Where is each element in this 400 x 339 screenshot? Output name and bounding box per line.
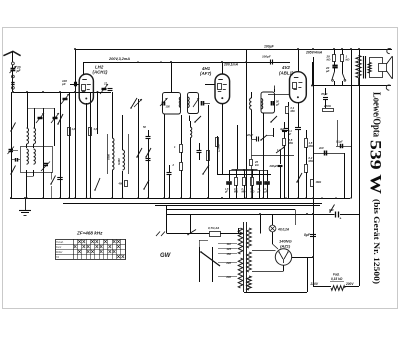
- capacitor C27 8uF plus: [335, 212, 337, 218]
- wire vertical x217 tall: [217, 136, 219, 174]
- resistor R7: [244, 170, 246, 177]
- capacitor C9: [146, 158, 151, 160]
- switch S1 antenna: [11, 123, 16, 132]
- resistor R14 1k: [342, 49, 344, 55]
- trimmer arrow osc a: [134, 99, 142, 107]
- IF2 primary coil: [250, 98, 252, 109]
- svg-text:2nF: 2nF: [318, 146, 324, 150]
- wire heater bus y203: [63, 203, 322, 205]
- wire bus to switch: [166, 206, 168, 234]
- IF transformer 2 can: [261, 92, 275, 113]
- svg-text:µF: µF: [264, 191, 268, 194]
- wire x337 feedback: [337, 120, 339, 146]
- table cross marks: [78, 240, 81, 243]
- wire vertical x112: [112, 92, 114, 138]
- tap 150: [218, 253, 237, 255]
- wire rectifier filament: [283, 265, 285, 271]
- cathode resistor R11 wire: [288, 102, 290, 106]
- wire vertical x313: [313, 57, 315, 286]
- wire vertical x246: [246, 49, 248, 198]
- capacitor C26 200uF: [280, 150, 282, 164]
- capacitor C12 grid coupling: [270, 60, 272, 65]
- wire 4H1 grid: [205, 84, 215, 86]
- transformer core lines: [243, 222, 245, 292]
- svg-text:TA: TA: [56, 255, 59, 259]
- capacitor C24 20uF: [251, 115, 253, 139]
- wire bus y214: [166, 214, 335, 216]
- wire 4V2 anode: [298, 49, 300, 72]
- svg-text:(ABL1): (ABL1): [279, 71, 294, 76]
- wire mains switch line: [167, 233, 209, 235]
- ground symbol: [25, 198, 27, 210]
- transformer core: [363, 56, 365, 79]
- svg-text:200µF: 200µF: [269, 164, 278, 168]
- svg-text:27: 27: [103, 82, 107, 86]
- band switch blade a: [11, 166, 16, 175]
- dial lamp: [269, 225, 276, 232]
- wire 4H1 anode: [222, 62, 224, 74]
- switch blade d: [131, 98, 137, 108]
- terminal hook speaker return: [386, 85, 390, 90]
- coil shield lines: [107, 134, 109, 174]
- wire antenna junction: [13, 92, 111, 94]
- switch blade k: [297, 173, 302, 182]
- wire vertical x60: [60, 92, 62, 198]
- svg-text:150: 150: [166, 105, 171, 109]
- small cap on lead: [11, 82, 14, 84]
- svg-text:1MΩ: 1MΩ: [316, 180, 322, 184]
- potentiometer arrow: [276, 147, 285, 154]
- IF1 secondary coil: [188, 97, 190, 108]
- wire x171 top: [171, 62, 173, 92]
- wire vertical x27: [27, 92, 29, 128]
- capacitor C14 1uF: [259, 170, 261, 181]
- svg-text:4V2: 4V2: [281, 65, 290, 70]
- wire vertical x97: [97, 92, 99, 134]
- resistor R5: [207, 151, 210, 161]
- capacitor C22 8uF: [310, 234, 316, 236]
- wire top HT bus: [75, 49, 392, 51]
- svg-text:480: 480: [118, 182, 124, 186]
- capacitor C7: [108, 88, 113, 90]
- resistor R15b: [305, 165, 308, 173]
- svg-text:100pF: 100pF: [262, 55, 271, 59]
- IF2 series cap: [271, 101, 273, 106]
- svg-text:1,0: 1,0: [72, 127, 76, 131]
- wire speaker return drop: [358, 78, 360, 86]
- resistor R6: [236, 170, 238, 177]
- svg-text:20µF: 20µF: [246, 133, 254, 137]
- antenna coil L1: [27, 128, 29, 144]
- transformer primary winding: [238, 228, 243, 254]
- svg-text:MΩ: MΩ: [234, 191, 238, 194]
- switch blade m: [144, 180, 149, 189]
- svg-text:240: 240: [225, 275, 231, 279]
- wire transformer bottom: [244, 292, 307, 294]
- selector arm: [201, 252, 220, 266]
- svg-text:Tonab.: Tonab.: [56, 240, 64, 244]
- wire lamp to rectifier: [272, 238, 274, 244]
- svg-text:200V,3,2mA: 200V,3,2mA: [108, 57, 130, 61]
- shield box oscillator coils: [21, 147, 53, 173]
- wire vertical x359 right border: [359, 49, 361, 286]
- resistor R16 1M: [311, 180, 314, 187]
- speaker frame box: [370, 58, 383, 78]
- svg-text:0,7/1,2A: 0,7/1,2A: [208, 226, 219, 230]
- tap 110: [218, 243, 237, 245]
- wire x83 drop: [83, 62, 85, 75]
- wire rectifier output y286: [313, 286, 331, 288]
- IF1 right cap: [201, 101, 203, 106]
- svg-text:200Ω: 200Ω: [323, 104, 332, 108]
- tube LH2: [79, 74, 93, 104]
- title Loewe/Opta 539 W (bis Geraet Nr. 12500): [367, 92, 384, 284]
- speaker cone: [387, 56, 393, 64]
- wire rectifier output: [292, 257, 313, 259]
- wire IF1 down: [189, 116, 191, 122]
- transformer secondary winding: [247, 228, 252, 248]
- speaker magnet: [379, 64, 387, 72]
- wire primary top: [220, 233, 238, 235]
- rectifier tube AZ1: [275, 249, 291, 265]
- wire vertical x312: [312, 62, 314, 86]
- svg-text:(bis Gerät Nr. 12500): (bis Gerät Nr. 12500): [372, 199, 382, 284]
- switch blade h: [203, 165, 209, 174]
- svg-text:Fad.: Fad.: [333, 273, 340, 277]
- trimmer C6: [102, 88, 107, 90]
- svg-text:µF: µF: [287, 132, 292, 136]
- antenna coil L2: [34, 128, 36, 144]
- bus junction dots: [10, 197, 12, 199]
- svg-text:0,15 kΩ: 0,15 kΩ: [331, 277, 343, 281]
- wire vertical x208: [208, 105, 210, 198]
- svg-text:0,1µF: 0,1µF: [336, 140, 343, 144]
- wire IF2 feeds: [263, 113, 265, 199]
- switch blade j: [342, 62, 344, 74]
- switch blade HT: [330, 205, 335, 213]
- capacitor C21 01uF: [336, 146, 351, 148]
- resistor R15: [305, 139, 308, 148]
- wire vertical x69: [69, 92, 71, 198]
- trimmer C1: [38, 117, 43, 119]
- svg-text:µF: µF: [257, 191, 261, 194]
- antenna: [3, 51, 20, 55]
- oscillator coil L5: [112, 138, 114, 170]
- wire coils to ground: [26, 170, 28, 198]
- svg-text:220: 220: [225, 261, 231, 265]
- capacitor C20 2nF: [313, 153, 344, 155]
- tap 240: [218, 276, 237, 278]
- wire IF2 grid: [268, 94, 290, 96]
- capacitor C25 01uF: [284, 122, 286, 129]
- svg-text:1,5kΩ: 1,5kΩ: [217, 144, 221, 152]
- resistor R4: [125, 181, 128, 187]
- svg-text:150: 150: [226, 252, 231, 256]
- svg-text:+: +: [340, 217, 342, 221]
- capacitor C4 left: [57, 177, 63, 179]
- svg-text:265V/4mA: 265V/4mA: [305, 51, 323, 55]
- oscillator coil L3: [27, 149, 29, 164]
- svg-text:110: 110: [227, 242, 232, 246]
- svg-text:125: 125: [226, 247, 231, 251]
- resistor R8: [252, 170, 254, 177]
- terminal hook top right: [387, 48, 391, 53]
- padder cap C3: [44, 163, 49, 165]
- switch blade e: [137, 148, 142, 157]
- svg-text:Mittel: Mittel: [56, 250, 63, 254]
- wire grid bus y62: [83, 62, 290, 64]
- resistor R18: [89, 128, 92, 136]
- svg-text:Loewe/Opta: Loewe/Opta: [371, 92, 382, 138]
- wire vertical x164: [164, 115, 166, 199]
- switch blade i: [334, 67, 336, 71]
- antenna socket 2: [12, 75, 15, 78]
- wire component row top: [229, 170, 267, 172]
- resistor R17 03M: [286, 107, 289, 114]
- voltage selector right rail: [212, 247, 214, 282]
- IF2 secondary coil: [261, 99, 263, 110]
- IF1 tuning cap left: [162, 102, 164, 106]
- mains switch: [188, 230, 196, 235]
- junction dots top bus: [333, 48, 335, 50]
- capacitor C17 70pF: [323, 97, 328, 99]
- capacitor C16 4uF: [284, 128, 289, 130]
- wire bus drops power: [260, 214, 262, 234]
- trimmer C2: [53, 117, 58, 119]
- svg-text:28V,1mA: 28V,1mA: [223, 63, 239, 67]
- IF1 trimmer arrow: [193, 98, 199, 107]
- wire vertical x138: [138, 99, 140, 198]
- wire AVC vertical x75: [75, 49, 77, 198]
- oscillator coil L6: [123, 150, 125, 170]
- wire 4H1 cathode: [222, 104, 224, 174]
- svg-text:4V,0,2A: 4V,0,2A: [277, 228, 290, 232]
- wire x273: [273, 128, 275, 137]
- svg-text:8µF: 8µF: [304, 233, 311, 237]
- antenna socket 3: [12, 86, 15, 89]
- svg-text:220V: 220V: [310, 282, 319, 286]
- tap 125: [218, 248, 237, 250]
- choke coil L7: [190, 121, 192, 127]
- switch blade l: [58, 114, 63, 124]
- tap 220: [218, 262, 237, 264]
- svg-text:4,0: 4,0: [93, 127, 98, 131]
- antenna trimmer capacitor: [11, 68, 16, 70]
- tube 4V2: [290, 72, 307, 103]
- oscillator coil L4: [34, 149, 36, 164]
- svg-text:MΩ: MΩ: [251, 191, 255, 194]
- svg-text:G360: G360: [117, 158, 121, 165]
- field coil choke: [356, 56, 361, 78]
- trimmer C23: [63, 98, 68, 100]
- svg-text:70pF: 70pF: [321, 92, 328, 96]
- IF transformer 1 secondary can: [188, 93, 199, 114]
- wire vertical x54: [54, 108, 56, 146]
- resistor R12 200ohm: [323, 109, 334, 112]
- capacitor C18 20uF: [332, 65, 337, 67]
- wire vertical x351: [351, 49, 353, 198]
- resistor R20 25k: [250, 160, 253, 166]
- resistor R13 29k: [334, 49, 336, 55]
- wire ground bus y198: [10, 198, 350, 200]
- IF1 primary coil: [179, 97, 181, 108]
- wire speaker return y85: [313, 85, 391, 87]
- cathode wire LH2: [86, 103, 88, 198]
- svg-text:MΩ: MΩ: [291, 109, 295, 113]
- svg-text:pF: pF: [61, 82, 66, 86]
- capacitor C11: [167, 172, 172, 174]
- output transformer secondary: [368, 63, 371, 74]
- antenna socket 1: [12, 62, 15, 65]
- capacitor C10: [197, 150, 202, 152]
- trimmer antenna pad: [9, 149, 14, 151]
- svg-text:4µF: 4µF: [279, 127, 285, 131]
- wire 4V2 cathode: [298, 103, 300, 128]
- capacitor C13 1,5uF: [229, 170, 231, 181]
- heater dropper resistor: [331, 286, 345, 291]
- band switch blade b: [51, 176, 56, 185]
- svg-text:GW: GW: [160, 253, 172, 259]
- wire bus y209: [166, 209, 295, 211]
- svg-text:kΩ: kΩ: [255, 163, 258, 167]
- svg-text:(AZ1): (AZ1): [280, 244, 291, 249]
- wire vertical x11: [11, 92, 13, 198]
- svg-text:200V: 200V: [345, 282, 354, 286]
- svg-text:(AF7): (AF7): [200, 71, 212, 76]
- svg-text:µF: µF: [325, 69, 330, 73]
- svg-text:µF: µF: [224, 191, 228, 194]
- wire y169: [232, 169, 258, 171]
- wire vertical x90: [90, 92, 92, 198]
- tube 4H1: [215, 74, 230, 104]
- wire vertical x34: [34, 108, 36, 128]
- wire rectifier anode: [252, 250, 276, 252]
- fuse F1: [210, 232, 221, 237]
- band switch blade c: [95, 178, 100, 190]
- capacitor C15 01uF: [267, 170, 269, 181]
- IF transformer 1 primary can: [163, 93, 181, 115]
- svg-text:Kurz: Kurz: [56, 245, 62, 249]
- svg-text:(ACH1): (ACH1): [93, 70, 108, 75]
- resistor R19 05M: [284, 132, 286, 138]
- alignment table grid: [56, 240, 126, 260]
- cap into coil box: [15, 158, 17, 162]
- capacitor C8: [146, 136, 151, 138]
- svg-text:100µF: 100µF: [264, 45, 275, 49]
- svg-text:pF: pF: [275, 102, 280, 106]
- wire vertical x237: [237, 125, 239, 169]
- resistor R1 left: [68, 128, 71, 136]
- switch blade f: [146, 148, 151, 157]
- trimmer arrow osc b: [160, 98, 168, 106]
- svg-text:539 W: 539 W: [367, 140, 384, 195]
- svg-text:ZF=468 kHz: ZF=468 kHz: [76, 231, 103, 236]
- svg-text:MΩ: MΩ: [242, 191, 246, 194]
- wire LH2 grid: [70, 84, 79, 86]
- svg-text:0360: 0360: [107, 154, 111, 160]
- voltage selector left rail: [199, 247, 201, 282]
- wire vertical x181: [181, 115, 183, 144]
- wire vertical x43: [43, 108, 45, 198]
- wire component row top y174: [217, 174, 271, 176]
- wire bus y205: [155, 205, 320, 207]
